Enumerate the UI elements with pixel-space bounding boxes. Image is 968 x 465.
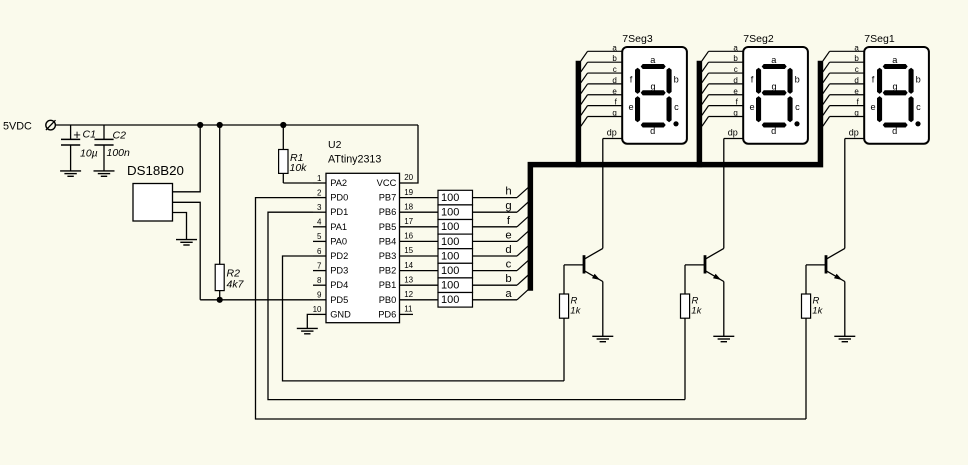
pin 1 PA2 <box>313 174 347 188</box>
svg-text:g: g <box>651 82 656 92</box>
svg-text:b: b <box>854 54 859 63</box>
svg-text:e: e <box>628 102 633 112</box>
pin 11 PD6 <box>378 305 413 320</box>
svg-text:C1: C1 <box>83 128 96 140</box>
svg-text:12: 12 <box>404 290 413 299</box>
wire Q1 collector to dp <box>844 139 846 249</box>
junction +5V / R2 <box>217 122 223 128</box>
pin 4 PA1 <box>313 218 347 232</box>
capacitor C1 10u <box>61 125 98 171</box>
svg-text:VCC: VCC <box>377 178 397 188</box>
wire R1 to PA2 <box>283 182 313 184</box>
node e wire to bus <box>473 229 529 241</box>
wire DS18B20 DQ down <box>173 202 201 299</box>
svg-text:100: 100 <box>441 236 459 248</box>
svg-text:+: + <box>73 127 81 142</box>
svg-text:100: 100 <box>441 192 459 204</box>
svg-text:PD6: PD6 <box>378 309 396 319</box>
ground (DS18B20) <box>176 240 197 245</box>
resistor 100 (segment d) <box>438 249 473 264</box>
pin 3 PD1 <box>313 203 348 217</box>
svg-text:g: g <box>733 109 737 118</box>
svg-text:a: a <box>892 55 898 65</box>
svg-text:18: 18 <box>404 202 413 211</box>
svg-text:PD5: PD5 <box>330 295 348 305</box>
svg-text:d: d <box>612 76 616 85</box>
7-segment display 7Seg3 <box>622 33 687 144</box>
wire PD0 (pin 2) to Q1 base resistor <box>256 198 807 419</box>
svg-text:10µ: 10µ <box>80 147 98 159</box>
ground (U2 pin 10) <box>297 328 318 333</box>
svg-text:19: 19 <box>404 188 413 197</box>
wire Q2 base <box>685 264 704 266</box>
svg-text:a: a <box>505 288 512 300</box>
svg-text:PB6: PB6 <box>379 207 397 217</box>
pin 5 PA0 <box>313 232 347 246</box>
ground (Q3 emitter) <box>592 336 613 341</box>
svg-text:9: 9 <box>317 291 322 300</box>
node f wire to bus <box>473 215 529 227</box>
resistor R1 10k <box>279 125 308 183</box>
resistor R2 4k7 <box>215 125 244 300</box>
resistor R 1k (Q1 base) <box>802 265 824 419</box>
7Seg2 digit segments <box>749 55 800 136</box>
node c wire to bus <box>473 259 529 271</box>
svg-text:4: 4 <box>317 218 322 227</box>
capacitor C2 100n <box>94 125 130 171</box>
svg-text:dp: dp <box>849 127 859 137</box>
junction +5V / DS18B20 VDD <box>197 122 203 128</box>
7Seg1 digit segments <box>870 55 921 136</box>
wire Q2 emitter to ground <box>723 282 725 337</box>
svg-text:100n: 100n <box>107 147 131 159</box>
pin 20 VCC <box>377 173 414 188</box>
transistor Q2 <box>704 248 724 281</box>
wire +5V rail <box>55 124 418 126</box>
svg-text:1k: 1k <box>812 305 823 316</box>
svg-text:ATtiny2313: ATtiny2313 <box>328 154 381 166</box>
transistor Q3 <box>583 248 603 281</box>
sensor DS18B20 <box>127 163 184 221</box>
svg-text:100: 100 <box>441 294 459 306</box>
svg-text:PB5: PB5 <box>379 222 397 232</box>
svg-text:100: 100 <box>441 265 459 277</box>
svg-text:f: f <box>872 75 875 85</box>
resistor 100 (segment a) <box>438 293 473 308</box>
bus riser 7Seg3 <box>576 61 582 168</box>
pin 13 PB1 <box>379 275 438 290</box>
pin 17 PB5 <box>379 217 438 232</box>
svg-text:a: a <box>771 55 777 65</box>
7-segment display 7Seg2 <box>743 33 808 144</box>
ground (C2) <box>94 171 115 176</box>
wire Q3 emitter to ground <box>602 282 604 337</box>
svg-text:PD4: PD4 <box>330 280 348 290</box>
svg-text:5VDC: 5VDC <box>3 120 32 132</box>
svg-text:b: b <box>916 75 921 85</box>
svg-text:PD2: PD2 <box>330 251 348 261</box>
pin 9 PD5 <box>313 291 348 305</box>
power terminal 5VDC <box>3 120 56 132</box>
svg-text:e: e <box>870 102 875 112</box>
svg-text:3: 3 <box>317 203 322 212</box>
svg-text:100: 100 <box>441 250 459 262</box>
wire Q3 collector to dp <box>602 139 604 249</box>
junction R2 / DQ net <box>217 297 223 303</box>
node b wire to bus <box>473 273 529 285</box>
svg-text:R2: R2 <box>227 267 241 279</box>
IC U2 ATtiny2313 <box>326 139 400 323</box>
svg-text:7Seg1: 7Seg1 <box>864 33 895 45</box>
svg-text:7: 7 <box>317 261 322 270</box>
svg-text:7Seg3: 7Seg3 <box>622 33 653 45</box>
svg-text:1k: 1k <box>570 305 581 316</box>
svg-text:PB2: PB2 <box>379 266 397 276</box>
svg-text:d: d <box>854 76 858 85</box>
svg-text:6: 6 <box>317 247 322 256</box>
svg-text:5: 5 <box>317 232 322 241</box>
wire DS18B20 GND <box>173 213 187 240</box>
resistor 100 (segment c) <box>438 263 473 278</box>
svg-text:PA1: PA1 <box>330 222 347 232</box>
wire Q1 emitter to ground <box>844 282 846 337</box>
wire DS18B20 VDD to +5V <box>173 125 201 192</box>
svg-text:c: c <box>613 65 617 74</box>
svg-text:7Seg2: 7Seg2 <box>743 33 774 45</box>
svg-text:15: 15 <box>404 246 413 255</box>
svg-text:g: g <box>893 82 898 92</box>
svg-text:PB3: PB3 <box>379 251 397 261</box>
svg-text:PB0: PB0 <box>379 295 397 305</box>
svg-text:14: 14 <box>404 261 413 270</box>
resistor 100 (segment g) <box>438 205 473 220</box>
svg-text:dp: dp <box>728 127 738 137</box>
svg-text:C2: C2 <box>113 129 127 141</box>
wire Q3 base <box>564 264 583 266</box>
wire DQ net to PD5 <box>200 299 313 301</box>
7Seg3 pin fan a-g <box>581 43 622 126</box>
wire GND (pin 10) <box>307 314 313 328</box>
svg-text:d: d <box>733 76 737 85</box>
svg-text:DS18B20: DS18B20 <box>127 163 184 178</box>
svg-text:c: c <box>795 102 800 112</box>
pin 2 PD0 <box>313 188 348 202</box>
pin 19 PB7 <box>379 188 438 203</box>
svg-text:8: 8 <box>317 276 322 285</box>
svg-text:b: b <box>612 54 617 63</box>
pin 6 PD2 <box>313 247 348 261</box>
svg-text:f: f <box>751 75 754 85</box>
pin 8 PD4 <box>313 276 348 290</box>
svg-text:a: a <box>650 55 656 65</box>
7Seg1 pin fan a-g <box>823 43 864 126</box>
svg-text:10: 10 <box>313 305 322 314</box>
svg-text:d: d <box>650 126 655 136</box>
ground (Q2 emitter) <box>713 336 734 341</box>
svg-text:e: e <box>749 102 754 112</box>
svg-text:10k: 10k <box>290 162 308 174</box>
svg-text:1: 1 <box>317 174 322 183</box>
svg-text:d: d <box>771 126 776 136</box>
wire PD1 (pin 3) to Q2 base resistor <box>268 212 685 399</box>
wire VCC (pin 20) to +5V rail <box>413 125 418 183</box>
resistor 100 (segment f) <box>438 220 473 235</box>
svg-text:e: e <box>505 229 511 241</box>
svg-text:e: e <box>854 87 859 96</box>
pin 16 PB4 <box>379 232 438 247</box>
node d wire to bus <box>473 244 529 256</box>
svg-text:h: h <box>505 186 511 198</box>
svg-text:g: g <box>854 109 858 118</box>
svg-text:b: b <box>795 75 800 85</box>
pin 12 PB0 <box>379 290 438 305</box>
7-segment display 7Seg1 <box>864 33 929 144</box>
transistor Q1 <box>825 248 845 281</box>
pin 7 PD3 <box>313 261 348 275</box>
svg-text:c: c <box>916 102 921 112</box>
7Seg2 dp pin <box>724 127 743 138</box>
wire Q1 base <box>806 264 825 266</box>
svg-text:g: g <box>612 109 616 118</box>
svg-text:d: d <box>892 126 897 136</box>
7Seg1 dp pin <box>845 127 864 138</box>
ground (C1) <box>60 171 81 176</box>
svg-text:PD1: PD1 <box>330 207 348 217</box>
svg-text:13: 13 <box>404 275 413 284</box>
svg-text:20: 20 <box>404 173 413 182</box>
resistor 100 (segment e) <box>438 234 473 249</box>
wire PD2 (pin 6) to Q3 base resistor <box>283 256 565 381</box>
svg-text:g: g <box>772 82 777 92</box>
svg-text:PB1: PB1 <box>379 280 397 290</box>
bus riser 7Seg2 <box>697 61 703 168</box>
svg-text:c: c <box>734 65 738 74</box>
pin 18 PB6 <box>379 202 438 217</box>
bus: resistor column / horizontal run / riser 7Seg1 <box>530 61 820 291</box>
7Seg3 dp pin <box>603 127 622 138</box>
svg-text:f: f <box>630 75 633 85</box>
node g wire to bus <box>473 200 529 212</box>
svg-text:16: 16 <box>404 232 413 241</box>
svg-text:b: b <box>674 75 679 85</box>
node a wire to bus <box>473 288 529 300</box>
svg-text:c: c <box>855 65 859 74</box>
svg-text:dp: dp <box>607 127 617 137</box>
svg-text:PB4: PB4 <box>379 236 397 246</box>
pin 10 GND <box>313 305 352 319</box>
svg-text:4k7: 4k7 <box>227 279 245 291</box>
junction +5V / R1 <box>280 122 286 128</box>
resistor 100 (segment h) <box>438 190 473 205</box>
7Seg2 pin fan a-g <box>702 43 743 126</box>
svg-text:d: d <box>505 244 511 256</box>
svg-text:b: b <box>733 54 738 63</box>
svg-text:2: 2 <box>317 188 322 197</box>
svg-text:a: a <box>612 43 617 52</box>
svg-text:c: c <box>506 259 512 271</box>
svg-text:PD0: PD0 <box>330 193 348 203</box>
svg-text:PB7: PB7 <box>379 193 397 203</box>
resistor R 1k (Q2 base) <box>681 265 703 400</box>
svg-text:b: b <box>505 273 511 285</box>
svg-text:100: 100 <box>441 207 459 219</box>
svg-text:11: 11 <box>404 305 413 314</box>
pin 15 PB3 <box>379 246 438 261</box>
7Seg3 digit segments <box>628 55 679 136</box>
ground (Q1 emitter) <box>834 336 855 341</box>
svg-text:PD3: PD3 <box>330 266 348 276</box>
svg-text:17: 17 <box>404 217 413 226</box>
svg-text:U2: U2 <box>328 139 342 151</box>
resistor R 1k (Q3 base) <box>560 265 582 381</box>
node h wire to bus <box>473 186 529 198</box>
resistor 100 (segment b) <box>438 278 473 293</box>
svg-text:a: a <box>733 43 738 52</box>
svg-text:100: 100 <box>441 221 459 233</box>
pin 14 PB2 <box>379 261 438 276</box>
wire Q2 collector to dp <box>723 139 725 249</box>
svg-text:PA2: PA2 <box>330 178 347 188</box>
svg-text:PA0: PA0 <box>330 236 347 246</box>
svg-text:e: e <box>733 87 738 96</box>
svg-text:e: e <box>612 87 617 96</box>
svg-text:1k: 1k <box>691 305 702 316</box>
svg-text:c: c <box>674 102 679 112</box>
svg-text:GND: GND <box>330 309 351 319</box>
svg-text:g: g <box>505 200 511 212</box>
svg-text:a: a <box>854 43 859 52</box>
svg-text:100: 100 <box>441 280 459 292</box>
